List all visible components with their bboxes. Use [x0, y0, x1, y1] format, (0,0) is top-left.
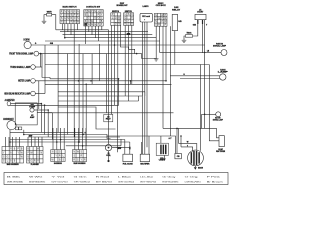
wire to block G [41, 137, 43, 147]
wire water unit top [160, 136, 162, 143]
junction stub [130, 80, 132, 82]
wire emergency drop 3 [162, 26, 164, 128]
svg-text:W/B Wht/Blk: W/B Wht/Blk [7, 180, 23, 183]
svg-text:O: O [131, 14, 133, 16]
wire brake switch L drop 4 staircase [121, 25, 135, 53]
wire vertical 45 [44, 45, 46, 94]
svg-text:O: O [37, 152, 39, 154]
wire to block H [56, 128, 58, 150]
wire brake switch L drop 3 [117, 25, 119, 96]
front turn signal lamp L1 [34, 51, 39, 56]
resistor R1 [47, 13, 52, 16]
svg-text:Gr Gray: Gr Gray [162, 176, 175, 179]
svg-text:G: G [91, 14, 93, 16]
rectifier box [140, 154, 149, 161]
svg-text:MAIN SWITCH: MAIN SWITCH [63, 6, 77, 9]
wire stub 43 [42, 78, 50, 79]
svg-text:RECTIFIER: RECTIFIER [140, 164, 150, 166]
wire hbus 2 [60, 31, 148, 33]
wire long vert 83 [82, 54, 84, 135]
wire flasher drop [174, 31, 176, 65]
svg-text:MAGN: MAGN [198, 167, 204, 170]
svg-text:G: G [64, 18, 66, 20]
wire R2 left to ground [184, 36, 185, 40]
wire brake switch R drop 3 [131, 25, 133, 84]
wire vertical 40.6 [40, 54, 42, 67]
wire lowbus 3 [28, 136, 120, 138]
junction speedo drop [9, 141, 11, 143]
CDI pin dot [144, 19, 145, 20]
junction magneto riser [180, 135, 182, 137]
wire long vert 86 [85, 84, 87, 146]
junction front turn [40, 53, 42, 55]
wire long vert 58 [57, 45, 59, 132]
svg-text:G: G [31, 161, 33, 163]
svg-text:G Grn: G Grn [74, 176, 87, 179]
indicator bulb oval [7, 101, 10, 105]
wire relay feed [58, 107, 116, 129]
water temp unit outer [156, 143, 168, 155]
wire rectifier right [148, 136, 150, 154]
wire magneto lead 2 [181, 147, 193, 152]
wire relay leg 1 [197, 20, 199, 24]
svg-text:TURN SIGNAL LAMP: TURN SIGNAL LAMP [10, 66, 30, 69]
resistor R2 [185, 35, 192, 38]
svg-text:O: O [88, 21, 90, 23]
svg-text:O: O [70, 11, 72, 13]
svg-text:L Blue: L Blue [118, 177, 131, 179]
junction fuel [129, 147, 131, 149]
load relay box [104, 114, 113, 121]
svg-text:O: O [97, 18, 99, 20]
wire long vert 74.2 [73, 44, 75, 137]
wire vertical 38.8 [38, 81, 40, 109]
fuel gauge box [123, 154, 133, 161]
junction I3 [82, 145, 84, 147]
wire R1 right down [52, 15, 56, 30]
wire hbus 136 to CB [107, 136, 176, 153]
wire handlebar drop 5 [98, 26, 100, 41]
svg-text:G: G [94, 18, 96, 20]
wire magneto bottom [194, 166, 196, 167]
wire turn indicator [35, 66, 42, 68]
wire lowbus 4 [10, 139, 125, 141]
ground G2 [182, 40, 187, 42]
svg-text:CDI unit: CDI unit [142, 15, 150, 18]
wire long vert 106 [105, 54, 107, 113]
svg-text:P Pink: P Pink [207, 177, 220, 179]
wire coil to plug [108, 151, 110, 161]
wire hbus 84.3 [45, 83, 172, 85]
water unit ground arrow [163, 159, 166, 162]
wire stair 3 stub [138, 96, 140, 101]
wire to block F [8, 137, 10, 147]
connector bottom G [27, 147, 44, 164]
wire relay leg 2 cont [202, 24, 204, 53]
wire speedo drop [9, 130, 11, 147]
rear turn signal lamp [216, 112, 221, 117]
wire to block F [5, 137, 7, 147]
wire bus A2 [67, 24, 69, 32]
CB box [175, 153, 181, 158]
wire gauge 2 [34, 109, 48, 111]
speedometer gauge [7, 121, 16, 130]
svg-text:B/W Blk/Wht: B/W Blk/Wht [29, 180, 46, 183]
svg-text:O: O [115, 17, 117, 19]
wire hbus 5 [45, 40, 160, 42]
wire to block G [31, 137, 33, 147]
svg-text:LAMPS: LAMPS [143, 5, 150, 8]
ignition coil body [105, 144, 111, 150]
svg-text:G: G [37, 157, 39, 159]
wire stair 2 stub [144, 92, 146, 96]
junction 48.2 [47, 109, 49, 111]
wire to fuel gauge 1 [124, 140, 126, 155]
ground G1 [42, 21, 47, 23]
svg-text:G: G [59, 151, 61, 153]
tail brake lamp [220, 74, 226, 80]
wire CDI drop 1 [141, 22, 143, 154]
svg-text:B/W: B/W [118, 148, 122, 150]
wire horn to right bus [31, 44, 204, 46]
wire right main bus [204, 20, 206, 128]
wire bus A5 [76, 24, 78, 30]
meter lamp L3 [31, 79, 36, 84]
wire emergency drop 2 [159, 26, 161, 52]
wire vertical 41.3 [40, 104, 42, 133]
svg-text:W/Y Wht/Yel: W/Y Wht/Yel [140, 180, 157, 183]
wire to block I [82, 128, 84, 150]
wire to block F [19, 137, 21, 147]
wire hbus 112.8 [45, 112, 174, 114]
connector main switch [60, 10, 80, 24]
svg-text:B/Y Blk/Yel: B/Y Blk/Yel [96, 181, 113, 183]
ground G3 [154, 59, 159, 61]
wire hbus 101 [58, 100, 139, 102]
svg-text:R Red: R Red [96, 177, 109, 179]
turn indicator lamp L2 [31, 65, 36, 70]
wire magneto lead 1 riser [178, 128, 180, 143]
wire hbus 4 [65, 37, 156, 39]
wire bus A3 [70, 24, 72, 35]
wire handlebar drop 2 [88, 26, 90, 32]
wire emergency drop 4 [165, 26, 167, 81]
svg-text:G: G [94, 24, 96, 26]
wire tail lamp 1 [170, 75, 220, 77]
wire lowbus 5 [10, 141, 130, 143]
wire front turn bus [39, 53, 142, 55]
wire hbus 78.8 [50, 78, 119, 80]
wire high beam [35, 93, 45, 95]
wire brake switch L drop 2 [114, 25, 116, 105]
wire to block G [34, 137, 36, 147]
wire bus A4 [73, 24, 75, 44]
wire rear lamp [202, 113, 216, 115]
wire brake switch L drop 1 [111, 25, 113, 114]
wire vert 201 short [201, 114, 203, 128]
svg-text:FRONT TURN SIGNAL LAMP: FRONT TURN SIGNAL LAMP [9, 52, 33, 55]
legend entries [7, 176, 223, 184]
wire V junction path [83, 135, 111, 139]
svg-text:FUEL GAUGE: FUEL GAUGE [123, 163, 134, 166]
wire handlebar drop 3 [91, 26, 93, 35]
svg-text:G/R Grn/Red: G/R Grn/Red [118, 180, 134, 183]
svg-text:G: G [6, 157, 8, 159]
handlebar connector filled cell [84, 23, 87, 26]
svg-text:B/W: B/W [127, 34, 131, 36]
wire to block F [15, 137, 17, 147]
wire long vert 79 [78, 44, 80, 142]
svg-text:G: G [77, 11, 79, 13]
wire to block G [27, 137, 29, 147]
CDI unit U1 [140, 13, 152, 22]
junction C2 horn bus [114, 44, 116, 46]
wire to block G [38, 137, 40, 147]
wire emergency drop to ground [155, 26, 157, 58]
wire hbus long 64.5 [45, 64, 209, 66]
junction cluster [23, 134, 25, 136]
connector bottom H [51, 150, 65, 162]
svg-text:METER LAMP: METER LAMP [18, 80, 30, 83]
legend box [4, 173, 228, 185]
svg-text:TMOA: TMOA [187, 32, 193, 35]
wire water unit bottom [163, 155, 165, 158]
wire vertical 44.6 [44, 105, 46, 134]
wire magneto lead 2 riser [180, 136, 182, 147]
svg-text:HARNESS: HARNESS [54, 162, 63, 165]
junction CB [176, 128, 178, 130]
wire coil top long [108, 30, 110, 145]
wire CDI drop 3 [146, 22, 148, 147]
wire stair 4 stub [141, 92, 143, 96]
wire lowbus 1 [10, 131, 83, 133]
wire vertical 42 [41, 54, 43, 78]
junction turn bus [136, 53, 138, 55]
svg-text:O Org: O Org [185, 176, 198, 179]
wire CB 1 [176, 128, 178, 153]
wire magneto lead Y long [199, 65, 201, 151]
wire to block I [74, 128, 76, 150]
wire tail lamp 2 [180, 78, 220, 80]
junction meterlamp 1 [78, 80, 80, 82]
wire bus right of emergency [169, 26, 171, 136]
wire hbus 128.4 to regulator [163, 128, 219, 137]
connector emergency box [154, 13, 167, 26]
wire long vert 67.5 [67, 54, 69, 135]
wire stair 1 [10, 79, 119, 106]
wire CDI drop 2 [144, 22, 146, 154]
svg-text:CONTACTS SW: CONTACTS SW [86, 6, 101, 9]
wire cluster drop [23, 130, 25, 135]
wire to block I [85, 128, 87, 150]
svg-text:G/Y Grn/Yel: G/Y Grn/Yel [51, 180, 68, 183]
wire meter lamp long bus [35, 80, 166, 82]
wire vertical 52.3 [51, 113, 53, 140]
wire lowbus 6 [66, 145, 121, 147]
magneto ground arrow [194, 167, 197, 170]
svg-text:REAR HARNESS: REAR HARNESS [74, 162, 87, 165]
wire coil right [112, 146, 116, 148]
connector handlebar switch [84, 10, 103, 26]
wire rectifier 1 [140, 142, 142, 154]
junction V [82, 134, 84, 136]
wire hbus 91.8 [58, 91, 145, 93]
wire vertical 48.2 [47, 110, 49, 137]
svg-text:R/W Red/Wht: R/W Red/Wht [162, 180, 179, 183]
high beam indicator lamp L4 [31, 91, 36, 96]
water temp unit bars [160, 145, 166, 155]
junction 41.3 [41, 103, 43, 105]
svg-text:G: G [158, 18, 160, 20]
wire relay leg 2 [202, 20, 204, 24]
wire to block F [12, 137, 14, 147]
svg-text:G: G [155, 24, 157, 26]
junction rear lamp [204, 114, 206, 116]
wire handlebar drop 1 [85, 26, 87, 44]
front right turn signal lamp [221, 50, 227, 56]
svg-text:O: O [115, 24, 117, 26]
svg-text:HIGH BEAM INDICATOR LAMP: HIGH BEAM INDICATOR LAMP [4, 92, 30, 95]
connector bottom F [2, 147, 24, 164]
wire brake switch R drop 1 [124, 25, 126, 96]
junction 44.6 [44, 104, 46, 106]
svg-text:O: O [124, 17, 126, 19]
wire to fuel gauge 2 [129, 142, 131, 154]
wire stub 130.5 [130, 81, 132, 85]
wire regulator feed 2 [209, 65, 219, 141]
junction stair1 [118, 78, 120, 80]
magneto windings [191, 151, 200, 165]
voltage regulator [219, 136, 224, 147]
svg-text:B Blk: B Blk [7, 177, 20, 179]
wire brake switch R drop 2 [128, 25, 130, 101]
wire lowbus 7 [116, 146, 130, 148]
horn H1 [24, 41, 31, 48]
water temp gauge L5 [30, 108, 34, 112]
svg-text:Y Yel: Y Yel [51, 177, 66, 179]
svg-text:G: G [155, 15, 157, 17]
svg-text:G: G [88, 18, 90, 20]
svg-text:G: G [64, 15, 66, 17]
junction long vert 86 [85, 84, 87, 86]
wire to block I [78, 128, 80, 150]
magneto stator circle [188, 150, 204, 166]
wire gauge 1 [37, 104, 44, 106]
junction A1 [64, 37, 66, 39]
wire bus A0 [62, 24, 64, 30]
wire bus A1 [64, 24, 66, 38]
wire hbus 96 [58, 95, 142, 97]
svg-text:Lb L.Blue: Lb L.Blue [140, 177, 153, 179]
svg-text:Y/R Yel/Red: Y/R Yel/Red [74, 181, 90, 183]
starter relay K2 [195, 14, 206, 19]
wire hbus 3 [63, 34, 153, 36]
wire hbus 1 [56, 29, 109, 31]
junction long vert 79 [78, 141, 80, 143]
flasher relay K1 [172, 14, 177, 30]
junction fuel 2 [129, 148, 131, 150]
ignition coil center [108, 147, 110, 149]
wire to front right lamp [160, 51, 222, 53]
wire to block H [52, 128, 54, 150]
junction emergency 4 [165, 80, 167, 82]
wire long vert 99 [98, 44, 100, 81]
wire handlebar drop 6 [101, 26, 103, 30]
junction H3 [60, 139, 62, 141]
connector bottom I [73, 150, 87, 162]
svg-text:FLASHER: FLASHER [31, 163, 40, 166]
wire handlebar drop 4 [94, 26, 96, 38]
junction I2 [78, 141, 80, 143]
wire turn bus to ground [142, 54, 157, 59]
spark plug tip [107, 160, 109, 162]
wire bulb to bus [11, 103, 42, 105]
connector brake switch L [111, 13, 121, 26]
wire magneto lead 1 [179, 144, 197, 151]
svg-text:W Wht: W Wht [29, 176, 43, 179]
svg-text:MAIN HARNESS: MAIN HARNESS [7, 163, 20, 166]
svg-text:Br Brown: Br Brown [207, 180, 223, 183]
junction H2 [56, 141, 58, 143]
svg-text:L/W Blu/Wht: L/W Blu/Wht [185, 180, 202, 183]
junction lamp1 [204, 52, 206, 54]
wire long vert 92 [91, 54, 93, 85]
meter cluster box [15, 103, 37, 125]
wire R2 to relay leg [193, 20, 198, 36]
wire gauge 3 [37, 112, 52, 114]
speedometer tabs [15, 127, 18, 130]
wire vert 121 [120, 139, 122, 146]
junction meterlamp 2 [90, 80, 92, 82]
wire to block H [60, 128, 62, 150]
wire to block H [63, 128, 65, 150]
wire R1 left to ground [44, 15, 47, 22]
wire lowbus 2 [24, 134, 83, 136]
wire left vert 117.4 [116, 96, 118, 152]
connector brake switch R [124, 13, 134, 26]
